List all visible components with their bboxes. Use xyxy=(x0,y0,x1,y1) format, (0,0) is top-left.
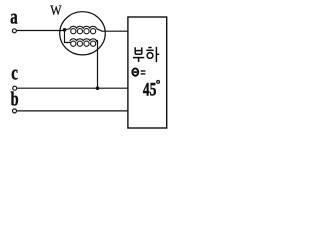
current coil loop 1 xyxy=(71,29,76,34)
theta label xyxy=(132,69,145,76)
voltage coil loop 1 xyxy=(71,41,76,46)
current coil loop 3 xyxy=(84,29,89,34)
wire a-line left (terminal a to junction) xyxy=(17,30,65,32)
voltage coil loop 2 xyxy=(77,41,82,46)
terminal a xyxy=(12,29,16,33)
wire a-line right (wattmeter to load box) xyxy=(97,29,129,32)
load label 하 (Hangul ha) xyxy=(146,47,159,62)
load box xyxy=(128,17,167,128)
wire c-line (terminal c to load box) xyxy=(17,87,128,89)
terminal c xyxy=(13,86,17,90)
voltage coil (bottom) bumps xyxy=(70,39,98,41)
load label 부 (Hangul bu) xyxy=(133,47,144,62)
current coil loop 2 xyxy=(77,29,82,34)
degree mark xyxy=(157,81,160,84)
current coil loop 4 xyxy=(91,29,96,34)
terminal b xyxy=(13,109,17,113)
wire junction to voltage coil (L-shape) xyxy=(65,30,71,43)
svg-text:45: 45 xyxy=(143,79,156,100)
voltage coil loop 4 xyxy=(91,41,96,46)
junction node on a-line xyxy=(63,28,67,32)
wire voltage coil to c-line (vertical) xyxy=(97,40,99,88)
current coil (top) bumps xyxy=(65,26,97,30)
svg-text:W: W xyxy=(50,2,61,19)
svg-text:c: c xyxy=(11,61,18,84)
wattmeter W1 circle xyxy=(60,12,106,55)
wire b-line (terminal b to load box) xyxy=(17,110,128,112)
junction node on c-line xyxy=(96,86,100,90)
svg-text:a: a xyxy=(10,5,18,28)
voltage coil loop 3 xyxy=(84,41,89,46)
